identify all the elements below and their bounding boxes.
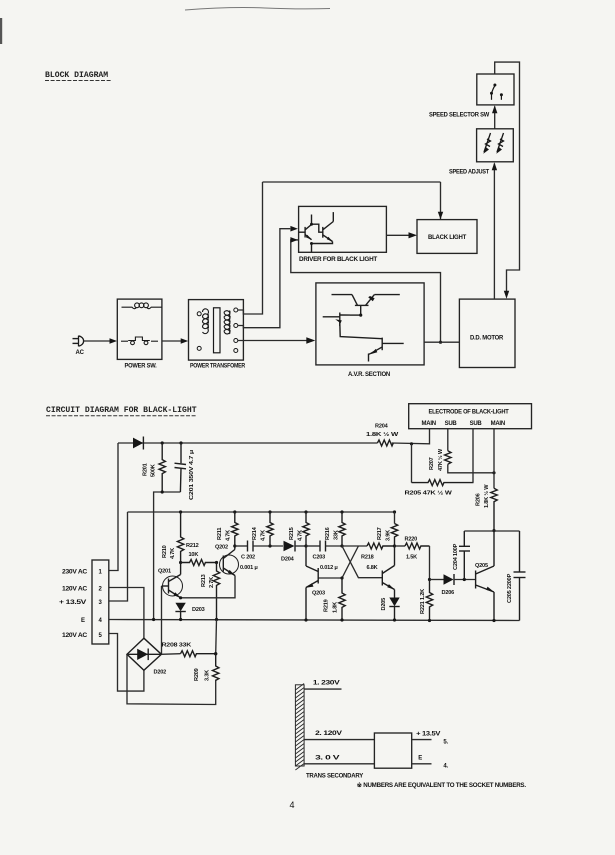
transformer primary terminals	[197, 312, 201, 316]
svg-text:MAIN: MAIN	[422, 421, 436, 427]
wire adjust to selector	[494, 107, 496, 129]
svg-text:4.7K: 4.7K	[298, 530, 304, 541]
resistor R214	[267, 512, 273, 546]
wire SUB1 drop to R207	[447, 429, 449, 451]
svg-text:R216: R216	[325, 527, 331, 540]
wire bottom rail E	[109, 620, 520, 621]
wire second rail drop to R217	[394, 512, 396, 524]
capacitor C201	[175, 443, 187, 492]
AC plug	[73, 336, 84, 346]
svg-text:6.8K: 6.8K	[367, 565, 378, 571]
capacitor C202	[248, 541, 254, 552]
AVR transistor A	[332, 295, 400, 316]
driver for black light box	[299, 206, 387, 252]
T1 emitter arrow	[306, 235, 312, 240]
diode D204	[284, 541, 295, 551]
variable resistor symbol 1	[484, 133, 491, 152]
svg-text:D202: D202	[154, 670, 167, 676]
svg-text:Q201: Q201	[158, 569, 171, 575]
svg-text:5.: 5.	[443, 740, 448, 746]
svg-text:R201: R201	[143, 463, 149, 476]
svg-text:MAIN: MAIN	[491, 421, 505, 427]
node dot main2 R207	[492, 471, 495, 474]
svg-text:R213: R213	[201, 574, 207, 587]
node dot C204 bottom junction	[463, 578, 466, 581]
socket connector box	[92, 560, 109, 644]
wire out 13.5V	[412, 739, 432, 741]
node dot R208/R209	[214, 652, 217, 655]
svg-text:CIRCUIT DIAGRAM FOR BLACK-LIGH: CIRCUIT DIAGRAM FOR BLACK-LIGHT	[46, 406, 197, 415]
resistor R212	[181, 560, 217, 566]
svg-text:1.8K ½ W: 1.8K ½ W	[366, 431, 399, 438]
node dot E D205	[393, 618, 396, 621]
node dot emitter/D203	[179, 596, 182, 599]
electrode of black-light box	[409, 404, 532, 429]
wire transformer low tap to AVR	[238, 340, 307, 342]
transistor Q202	[220, 546, 239, 576]
transistor T2 in driver	[312, 212, 334, 252]
speed adjust box	[477, 129, 514, 162]
svg-text:R207: R207	[429, 457, 435, 470]
scan artifact: top edge hairline	[185, 8, 330, 10]
svg-text:R210: R210	[162, 545, 168, 558]
svg-text:4.7K: 4.7K	[170, 548, 176, 559]
svg-text:E: E	[418, 756, 422, 762]
wire pin3 riser	[109, 512, 128, 601]
svg-text:ELECTRODE OF BLACK-LIGHT: ELECTRODE OF BLACK-LIGHT	[429, 410, 510, 416]
svg-text:R215: R215	[289, 527, 295, 540]
svg-text:A.V.R. SECTION: A.V.R. SECTION	[348, 372, 390, 378]
svg-text:3.9K: 3.9K	[386, 530, 392, 541]
resistor R215	[303, 512, 309, 546]
node dot R217 top	[393, 510, 396, 513]
svg-text:Q203: Q203	[312, 591, 325, 597]
arrow into transformer	[181, 338, 189, 344]
resistor R211	[232, 512, 238, 546]
D.D. motor box	[459, 299, 515, 367]
arrow into adjust bottom	[492, 162, 497, 170]
node dot E R221	[428, 619, 431, 622]
Q203 emitter arrow	[306, 583, 314, 587]
bridge inner diode	[127, 653, 161, 655]
svg-text:D.D. MOTOR: D.D. MOTOR	[470, 336, 504, 342]
capacitor C204	[459, 531, 470, 580]
svg-text:3. 0 V: 3. 0 V	[315, 756, 339, 762]
Q204 emitter arrow	[387, 584, 395, 590]
node dot E R213	[215, 618, 218, 621]
wire tap2 120V	[304, 739, 374, 741]
resistor R220	[405, 543, 430, 549]
svg-text:+ 13.5V: + 13.5V	[59, 600, 86, 606]
svg-text:120V AC: 120V AC	[62, 587, 88, 593]
node dot emitter join	[310, 242, 313, 245]
svg-text:47K ½ W: 47K ½ W	[437, 448, 444, 471]
svg-text:2. 120V: 2. 120V	[315, 731, 342, 737]
variable resistor symbol 2	[497, 133, 504, 152]
svg-text:C 202: C 202	[241, 555, 255, 561]
AVR node dot	[359, 314, 362, 317]
svg-text:SUB: SUB	[445, 421, 458, 427]
capacitor C205	[514, 531, 526, 621]
wire SUB2 drop	[472, 429, 474, 483]
node dot D206 left	[428, 578, 431, 581]
power switch box SW	[117, 299, 162, 359]
transistor Q201	[162, 563, 183, 598]
arrow into black light top	[438, 212, 443, 220]
arrow into driver input 2	[290, 237, 298, 243]
node dot E Q203	[304, 618, 307, 621]
svg-text:2.7K: 2.7K	[209, 577, 215, 588]
svg-text:3.3K: 3.3K	[205, 670, 211, 681]
svg-text:1. 230V: 1. 230V	[313, 681, 340, 687]
wire R201/C201 bottom join	[154, 492, 181, 620]
wire AC to power sw	[84, 340, 111, 342]
svg-text:230V AC: 230V AC	[62, 570, 88, 576]
cross wire R218 left to Q203 base	[318, 546, 358, 578]
svg-text:R214: R214	[252, 526, 258, 540]
wire rail to black light	[263, 181, 441, 183]
wire tap1 230V	[304, 688, 341, 690]
svg-text:4.7K: 4.7K	[226, 530, 232, 541]
node dot R216 bottom	[340, 544, 343, 547]
transformer primary coil	[202, 309, 208, 334]
svg-text:1.8K: 1.8K	[333, 602, 339, 613]
wire power sw to transformer	[162, 340, 182, 342]
wire to D206	[430, 579, 444, 581]
svg-text:C201 350V 4.7 μ: C201 350V 4.7 μ	[189, 449, 195, 500]
AVR transistor C	[369, 338, 404, 362]
AVR T-C emitter arrow	[370, 349, 377, 354]
wire D206 to Q205 base	[454, 579, 476, 581]
svg-text:D205: D205	[381, 598, 387, 611]
resistor R208	[181, 651, 216, 657]
svg-text:Q205: Q205	[475, 563, 488, 569]
wire D204 to node	[295, 545, 306, 547]
driver internal step wire	[312, 224, 323, 232]
svg-text:SPEED ADJUST: SPEED ADJUST	[449, 170, 490, 176]
resistor R221	[426, 580, 432, 621]
diode D201 on rail	[133, 438, 143, 449]
wire driver to black light	[386, 234, 410, 236]
svg-text:1.8K ½ W: 1.8K ½ W	[483, 484, 490, 508]
svg-text:C205 2200P: C205 2200P	[507, 573, 513, 603]
transformer secondary coil	[224, 311, 230, 335]
svg-text:4.7K: 4.7K	[261, 530, 267, 541]
node dot R201 bottom	[161, 490, 164, 493]
wire R207 to main2 node	[448, 464, 494, 473]
svg-text:R209: R209	[194, 668, 200, 681]
svg-text:C203: C203	[313, 555, 326, 561]
svg-text:R218: R218	[361, 555, 374, 561]
svg-text:SUB: SUB	[470, 421, 483, 427]
resistor R219	[339, 578, 345, 620]
node dot C204 line	[492, 529, 495, 532]
node dot E-R208 riser	[214, 652, 217, 655]
node dot R214 bottom	[268, 544, 271, 547]
wire AVR to motor	[424, 341, 459, 343]
arrow into AVR	[306, 337, 315, 343]
cross wire node A to Q204 base	[342, 546, 382, 578]
Q205 emitter arrow	[486, 587, 494, 593]
arrow into driver input 1	[290, 226, 298, 232]
resistor R206	[491, 488, 497, 530]
A.V.R. section box	[316, 283, 424, 365]
svg-text:1.5K: 1.5K	[406, 555, 417, 561]
Q201 emitter arrow	[174, 592, 181, 598]
svg-text:0.012 μ: 0.012 μ	[320, 565, 338, 571]
arrow into black light	[409, 232, 418, 238]
node dot E R219	[340, 618, 343, 621]
node dot Q203 base / R219	[340, 576, 343, 579]
node dot R211 top	[233, 510, 236, 513]
resistor R205	[412, 480, 474, 486]
resistor R207	[445, 451, 451, 464]
node dot R201 top	[161, 441, 164, 444]
trans secondary block box	[374, 733, 411, 768]
node dot R217 bottom	[393, 544, 396, 547]
svg-text:SPEED SELECTOR SW: SPEED SELECTOR SW	[429, 113, 490, 119]
wire junction up to E rail	[215, 620, 218, 654]
wire pin5 to bridge bottom	[109, 634, 144, 692]
svg-text:Q202: Q202	[215, 545, 228, 551]
svg-text:R211: R211	[217, 528, 223, 540]
svg-text:BLACK LIGHT: BLACK LIGHT	[428, 235, 467, 241]
wire MAIN2 drop	[493, 429, 495, 489]
wire bridge left to bottom rail	[127, 654, 216, 704]
svg-text:BLOCK DIAGRAM: BLOCK DIAGRAM	[45, 71, 108, 80]
power transformer box T	[189, 300, 244, 361]
diode D205	[394, 590, 396, 598]
wire R220 corner down to D206	[429, 546, 431, 580]
resistor R201	[159, 443, 165, 492]
svg-text:500K: 500K	[151, 464, 157, 477]
wire rail drop to R205	[411, 444, 413, 483]
AVR T-B arrow	[335, 319, 342, 323]
svg-text:DRIVER FOR BLACK LIGHT: DRIVER FOR BLACK LIGHT	[299, 257, 378, 263]
transistor Q205	[476, 531, 494, 621]
resistor R218	[367, 543, 395, 549]
wire transformer mid tap to driver	[238, 229, 290, 328]
capacitor C203	[320, 541, 326, 552]
svg-text:R217: R217	[377, 527, 383, 540]
transformer secondary terminals	[234, 308, 238, 312]
switch symbol in speed selector	[492, 86, 502, 100]
node dot Q202 collector	[233, 544, 236, 547]
coil inside power sw	[122, 303, 162, 309]
svg-text:R206: R206	[476, 493, 482, 506]
wire out E	[412, 763, 432, 765]
node dot E D203	[179, 618, 182, 621]
wire tap3 0V	[304, 763, 374, 765]
svg-text:D204: D204	[281, 557, 295, 563]
node dot R210 top	[179, 510, 182, 513]
speed selector switch box	[477, 74, 514, 105]
svg-text:POWER TRANSFOMER: POWER TRANSFOMER	[190, 364, 246, 370]
node dot R212/R213 junction	[215, 561, 218, 564]
node dot E x153	[152, 618, 155, 621]
resistor R210	[177, 512, 183, 563]
svg-text:R212: R212	[186, 543, 199, 549]
wire C202 to D204	[253, 545, 283, 547]
svg-text:POWER SW.: POWER SW.	[125, 364, 158, 370]
node dot R210 bottom	[179, 561, 182, 564]
svg-text:C204 100P: C204 100P	[453, 543, 459, 570]
svg-text:4: 4	[290, 800, 295, 810]
wire node to C203	[306, 545, 320, 547]
svg-text:R219: R219	[324, 599, 330, 612]
svg-text:0.001 μ: 0.001 μ	[240, 565, 258, 571]
wire node A across to R218	[342, 545, 367, 547]
svg-text:R204: R204	[375, 424, 389, 430]
svg-text:+ 13.5V: + 13.5V	[416, 732, 440, 738]
switch contact dots	[493, 84, 496, 87]
trans secondary core bar	[295, 684, 304, 771]
AVR T-A emitter arrow	[368, 296, 374, 301]
node dot E Q205	[492, 619, 495, 622]
wire driver input 2 from AVR node	[291, 240, 441, 342]
svg-text:D203: D203	[192, 607, 205, 613]
diode D206	[444, 574, 454, 584]
wire top rail	[118, 442, 377, 444]
arrow into selector bottom	[492, 105, 497, 113]
node dot R215 bottom	[304, 544, 307, 547]
svg-text:E: E	[81, 618, 85, 624]
transformer core	[214, 308, 221, 353]
svg-text:10K: 10K	[189, 552, 199, 558]
wire node to C202	[235, 545, 247, 547]
arrow into power sw	[110, 338, 118, 344]
resistor R217	[391, 524, 397, 547]
resistor R204 on rail	[377, 440, 393, 446]
transistor Q204	[382, 546, 394, 590]
svg-text:TRANS SECONDARY: TRANS SECONDARY	[306, 774, 363, 780]
transistor T1 in driver	[299, 215, 312, 240]
scan artifact: left edge mark	[0, 18, 2, 44]
svg-text:120V AC: 120V AC	[62, 633, 88, 639]
Q202 emitter arrow	[228, 570, 235, 576]
wire rail drop into black light	[440, 182, 442, 219]
bridge rectifier D202 diamond	[127, 638, 161, 670]
resistor R213	[213, 563, 219, 620]
svg-text:4.: 4.	[443, 764, 448, 770]
transistor Q203	[306, 546, 318, 620]
svg-text:※ NUMBERS ARE EQUIVALENT TO: ※ NUMBERS ARE EQUIVALENT TO THE SOCKET N…	[357, 781, 527, 789]
svg-text:R208 33K: R208 33K	[162, 643, 192, 649]
push switch inside power sw	[121, 337, 158, 345]
AVR transistor B	[323, 313, 383, 339]
wire pin2 to bridge top	[109, 588, 144, 639]
wire C204 top across	[464, 530, 519, 532]
resistor R216	[339, 512, 345, 546]
wire C203 to node A	[326, 545, 343, 547]
svg-text:R220: R220	[405, 537, 418, 543]
wire transformer top tap to rail	[238, 182, 263, 314]
svg-text:R205 47K ½ W: R205 47K ½ W	[405, 490, 453, 497]
node dot on AVR-motor wire	[439, 341, 442, 344]
wire emitter line	[181, 576, 235, 598]
svg-text:33K: 33K	[334, 530, 340, 540]
node dot R216 top	[340, 510, 343, 513]
wire R220 run	[395, 545, 406, 547]
svg-text:AC: AC	[76, 350, 85, 356]
node dot R215 top	[304, 510, 307, 513]
wire adjust down to motor	[493, 164, 495, 300]
wire Q201 base to bridge	[161, 586, 163, 654]
T2 emitter arrow	[327, 237, 333, 242]
wire left vertical pin1 riser	[109, 443, 118, 571]
black light box	[417, 220, 477, 254]
svg-text:D206: D206	[442, 590, 455, 596]
arrow into motor top	[504, 291, 509, 299]
node dot rail R205 branch	[410, 442, 413, 445]
wire second rail	[128, 511, 395, 513]
resistor R209	[213, 654, 219, 681]
node dot C201 top	[179, 441, 182, 444]
node dot R214 top	[268, 510, 271, 513]
wire bridge right up to Q201 base (done) and to R208	[161, 653, 180, 656]
node dot T1 collector	[310, 223, 313, 226]
wire selector loop over to right	[495, 62, 520, 291]
svg-text:R221 1.2K: R221 1.2K	[420, 589, 426, 614]
diode D203	[175, 603, 185, 612]
